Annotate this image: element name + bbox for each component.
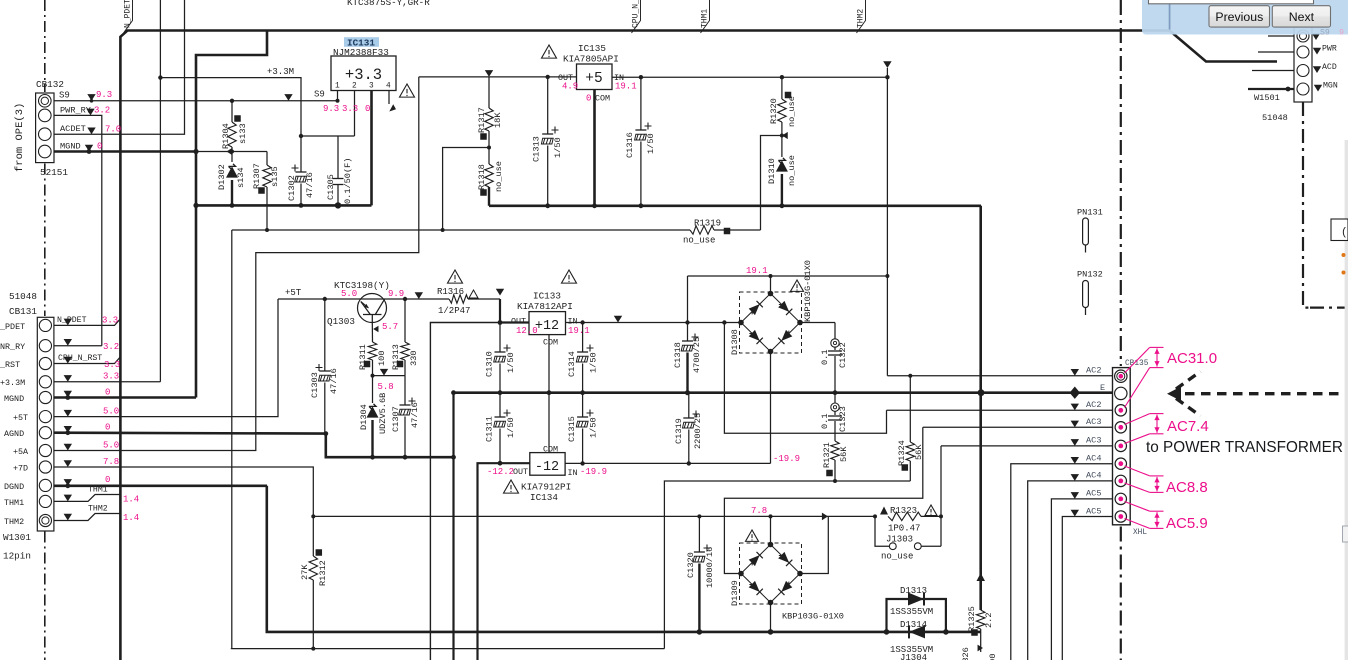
svg-text:ACD: ACD <box>1322 63 1337 72</box>
capacitor C1318 <box>692 334 699 341</box>
wire AC5a row <box>1051 499 1112 660</box>
svg-text:R1316: R1316 <box>437 287 464 297</box>
capacitor C1319 <box>693 411 700 418</box>
wire dash-dot boundary mid-right bottom <box>1120 527 1122 660</box>
node MGND-CB132 <box>193 149 198 154</box>
svg-text:AC3: AC3 <box>1086 417 1101 427</box>
svg-text:12.0: 12.0 <box>516 326 538 336</box>
svg-text:9: 9 <box>1339 29 1344 38</box>
svg-text:AC5: AC5 <box>1086 506 1101 516</box>
svg-text:R1307: R1307 <box>252 163 262 189</box>
wire +5 COM <box>593 90 596 206</box>
resistor R1304 <box>231 101 233 122</box>
wire dash-dot boundary left mid <box>44 164 46 317</box>
wire bus vertical to W1501 <box>1170 3 1278 62</box>
svg-text:AC31.0: AC31.0 <box>1167 350 1217 367</box>
resistor R1317 <box>488 77 490 108</box>
wire +12 OUT <box>500 299 529 323</box>
node C1318 top <box>685 320 689 324</box>
node flag N_PDET <box>124 0 133 33</box>
node +3.3M tap <box>158 75 162 79</box>
wire dash-dot boundary mid-right top <box>1120 0 1122 366</box>
wire +5 IN <box>612 76 887 78</box>
wire top bus <box>120 31 1169 660</box>
svg-text:S9: S9 <box>314 90 325 100</box>
node row markers <box>1071 369 1079 376</box>
resistor R1312 <box>312 516 314 556</box>
wire AC3b row <box>941 445 1113 447</box>
svg-text:no_use: no_use <box>494 161 504 192</box>
svg-text:4: 4 <box>386 83 391 91</box>
right edge small box <box>1331 219 1348 241</box>
svg-text:no_use: no_use <box>787 155 797 186</box>
wire +12 COM <box>548 335 550 393</box>
wire CPU_N_RST row <box>54 357 120 364</box>
svg-text:+5T: +5T <box>285 288 302 298</box>
svg-text:0: 0 <box>105 475 110 485</box>
svg-text:CPU_N_: CPU_N_ <box>632 0 641 28</box>
svg-text:100: 100 <box>377 351 387 366</box>
diode D1310 <box>781 136 783 158</box>
wire +5A row <box>54 77 419 451</box>
svg-text:1P0.47: 1P0.47 <box>888 524 920 534</box>
svg-text:D1304: D1304 <box>359 404 369 430</box>
node MGND rail <box>193 203 198 208</box>
svg-text:CB131: CB131 <box>9 306 37 317</box>
warning R1316 area <box>448 270 463 283</box>
svg-text:R1317: R1317 <box>477 107 487 133</box>
node D1302 gnd <box>230 203 235 208</box>
wire D1309 bottom <box>770 603 772 632</box>
node flag THM1 <box>701 0 710 33</box>
svg-text:2: 2 <box>352 83 357 91</box>
wire main E rail <box>454 391 1113 394</box>
resistor R1307 <box>266 152 268 166</box>
svg-text:no_use: no_use <box>787 96 797 127</box>
svg-text:R1325: R1325 <box>967 606 977 632</box>
svg-text:NR_RY: NR_RY <box>0 342 25 352</box>
svg-text:J1303: J1303 <box>886 535 913 545</box>
svg-text:_RST: _RST <box>0 360 20 370</box>
wire +3.3M row <box>54 381 160 383</box>
svg-text:0.1/50(F): 0.1/50(F) <box>343 158 353 204</box>
svg-text:AC2: AC2 <box>1086 400 1101 410</box>
node AGND-down <box>451 455 456 460</box>
right edge scrollbar strip <box>1345 140 1348 660</box>
node C1313 top <box>546 75 550 79</box>
wire -12 COM <box>548 393 550 453</box>
wire AC3a row <box>923 426 1113 428</box>
warning D1309 <box>746 530 759 541</box>
svg-text:3.3: 3.3 <box>342 104 358 114</box>
wire R1319 right link <box>761 136 782 231</box>
capacitor C1305 <box>337 136 339 179</box>
node C1319 bottom <box>687 461 691 465</box>
svg-text:AC8.8: AC8.8 <box>1166 479 1208 496</box>
svg-text:R1326: R1326 <box>961 647 971 660</box>
svg-text:KIA7805API: KIA7805API <box>563 54 619 65</box>
svg-text:COM: COM <box>543 338 558 348</box>
svg-text:51048: 51048 <box>9 291 37 302</box>
svg-text:0: 0 <box>105 423 110 433</box>
node C1302 top <box>299 134 303 138</box>
resistor R1313 <box>404 299 406 342</box>
wire MGND bus jog <box>196 32 267 398</box>
svg-text:IC135: IC135 <box>578 43 606 54</box>
wire PWR row <box>54 345 102 347</box>
wire AGND row <box>54 431 326 434</box>
resistor R1321 <box>831 441 839 460</box>
svg-text:IC134: IC134 <box>530 492 558 503</box>
capacitor C1313 <box>552 127 559 134</box>
svg-text:4700/25: 4700/25 <box>692 337 702 373</box>
node AC3b-R1323 <box>939 514 943 518</box>
svg-text:s135: s135 <box>270 166 280 187</box>
label AC8.8 dimension <box>1125 466 1164 492</box>
svg-text:(: ( <box>1341 227 1348 239</box>
svg-text:+5: +5 <box>585 71 602 87</box>
node COM rail <box>547 390 552 395</box>
label AC7.4 dimension <box>1125 414 1164 444</box>
diode network D1313 <box>887 599 946 632</box>
svg-text:PWR: PWR <box>1322 45 1337 54</box>
wire +5T row <box>54 299 278 417</box>
wire DGND bottom rail <box>267 486 981 632</box>
transistor Q1303 <box>358 294 387 323</box>
svg-text:0: 0 <box>365 104 370 114</box>
svg-text:XHL: XHL <box>1133 529 1147 537</box>
svg-text:no_use: no_use <box>881 552 913 562</box>
wire +3.3M net <box>159 0 161 382</box>
svg-text:C1302: C1302 <box>287 175 297 201</box>
svg-text:S9: S9 <box>1320 29 1330 38</box>
capacitor C1310 <box>504 345 511 352</box>
svg-text:19.1: 19.1 <box>615 82 637 92</box>
label AC5.9 dimension <box>1125 502 1164 529</box>
svg-text:0: 0 <box>105 387 110 397</box>
connector CB131 <box>37 317 54 531</box>
node R1319 line tap <box>441 228 445 232</box>
svg-text:5.0: 5.0 <box>103 440 119 450</box>
svg-text:C1322: C1322 <box>838 342 848 368</box>
svg-text:19.1: 19.1 <box>746 266 768 276</box>
svg-text:2.2: 2.2 <box>984 613 994 628</box>
node C1316 gnd <box>639 203 644 208</box>
wire CPU_RST bus drop <box>231 230 233 649</box>
node rail left end <box>451 390 456 395</box>
svg-text:1/2P47: 1/2P47 <box>438 306 470 316</box>
svg-text:18K: 18K <box>493 112 503 128</box>
node R1324 top <box>908 374 912 378</box>
wire D1308 bottom drop <box>770 352 772 464</box>
node C1303 top <box>323 297 327 301</box>
wire line A <box>664 481 910 649</box>
wire +5 ground rail <box>489 205 981 208</box>
svg-text:3.3: 3.3 <box>103 372 119 382</box>
svg-text:N_PDET: N_PDET <box>124 0 133 28</box>
resistor R1316 <box>415 292 423 299</box>
node D1310 gnd <box>780 203 785 208</box>
svg-text:R1318: R1318 <box>477 164 487 190</box>
svg-text:+3.3: +3.3 <box>345 66 382 84</box>
label AC31.0 dimension <box>1125 347 1164 407</box>
node R1321 line A <box>833 479 837 483</box>
svg-text:PN131: PN131 <box>1077 208 1103 218</box>
wire THM1 row <box>54 495 120 502</box>
svg-text:3.2: 3.2 <box>103 342 119 352</box>
svg-text:R1319: R1319 <box>694 219 721 229</box>
svg-text:KBP103G-01X0: KBP103G-01X0 <box>803 260 813 322</box>
svg-text:R1311: R1311 <box>358 344 368 370</box>
svg-text:DGND: DGND <box>4 482 24 492</box>
svg-text:AC5: AC5 <box>1086 489 1101 499</box>
wire -12 OUT <box>478 463 530 660</box>
node D1304 gnd <box>370 455 375 460</box>
wire +5T line <box>278 298 449 300</box>
node +7D corner <box>311 514 315 518</box>
svg-text:7.0: 7.0 <box>105 125 121 135</box>
svg-text:C1305: C1305 <box>326 174 336 200</box>
svg-text:S9: S9 <box>59 91 70 101</box>
wire -12 IN <box>565 462 770 464</box>
svg-text:C1323: C1323 <box>838 406 848 432</box>
wire PWR_RY <box>54 115 102 345</box>
wire D1309 left riser <box>724 427 922 573</box>
svg-text:THM2: THM2 <box>857 9 866 28</box>
svg-text:1/50: 1/50 <box>589 417 599 438</box>
capacitor C1316 <box>645 123 652 130</box>
svg-text:C1318: C1318 <box>673 342 683 368</box>
svg-text:52151: 52151 <box>40 167 68 178</box>
node C1310 rail <box>498 390 503 395</box>
node 19.1 branch <box>885 75 889 79</box>
wire AC3b net vertical <box>940 446 942 546</box>
svg-text:D1309: D1309 <box>730 580 740 606</box>
svg-text:MGND: MGND <box>60 141 81 151</box>
wire pin2 link <box>301 135 355 137</box>
wire R1311-R1313 join <box>373 375 406 377</box>
svg-text:1: 1 <box>335 83 340 91</box>
svg-text:THM1: THM1 <box>88 486 108 495</box>
svg-text:330: 330 <box>409 351 419 366</box>
svg-text:N_PDET: N_PDET <box>57 316 87 325</box>
svg-text:D1308: D1308 <box>730 329 740 355</box>
bridge D1308 <box>740 292 802 353</box>
svg-text:+12: +12 <box>535 319 559 334</box>
node C1302 gnd <box>299 203 304 208</box>
svg-text:MGND: MGND <box>4 394 24 404</box>
node COM gnd <box>592 203 597 208</box>
svg-text:_PDET: _PDET <box>0 322 25 332</box>
svg-text:5.0: 5.0 <box>103 406 119 416</box>
node S9-R1304 <box>230 99 234 103</box>
svg-text:s134: s134 <box>236 167 246 188</box>
svg-text:AGND: AGND <box>4 429 24 439</box>
svg-text:-19.9: -19.9 <box>773 454 800 464</box>
warning IC135 <box>542 45 557 58</box>
resistor R1319 <box>690 226 714 234</box>
warning IC131 <box>400 84 415 97</box>
node E big junction <box>978 389 985 396</box>
wire IC131 pin4 <box>388 91 390 105</box>
svg-text:+7D: +7D <box>13 464 28 474</box>
svg-text:OUT: OUT <box>513 467 528 477</box>
node flag THM2 <box>857 0 866 33</box>
svg-text:C1314: C1314 <box>567 351 577 377</box>
wire 7.8 to D1309 top <box>770 516 772 544</box>
wire THM2 row <box>54 514 120 521</box>
resistor R1324 <box>909 376 911 442</box>
svg-text:27K: 27K <box>300 564 310 580</box>
wire dash-dot boundary left top <box>44 0 46 92</box>
svg-text:1/50: 1/50 <box>646 133 656 154</box>
node C1316 top <box>639 75 643 79</box>
warning IC134 <box>504 480 519 493</box>
svg-text:R1312: R1312 <box>318 560 328 586</box>
svg-text:2200/25: 2200/25 <box>693 413 703 449</box>
svg-text:56K: 56K <box>839 446 849 462</box>
svg-text:5.8: 5.8 <box>378 382 394 392</box>
wire +12 OUT drop <box>430 323 500 660</box>
svg-text:9.3: 9.3 <box>323 104 339 114</box>
svg-text:0.1: 0.1 <box>820 350 830 365</box>
svg-text:C1320: C1320 <box>686 552 696 578</box>
svg-text:1SS355VM: 1SS355VM <box>890 607 933 617</box>
wire D1308 left AC2 link <box>724 323 886 434</box>
svg-text:KIA7912PI: KIA7912PI <box>521 482 571 493</box>
warning IC133 <box>562 270 577 283</box>
node R1317-R1318 <box>487 146 491 150</box>
node C1307 gnd <box>403 455 408 460</box>
svg-text:AC7.4: AC7.4 <box>1167 418 1209 435</box>
wire R1318 junction left <box>443 148 489 231</box>
node R1312 bottom <box>311 647 315 651</box>
wire bottom link line <box>231 648 232 650</box>
button Previous <box>1209 6 1270 27</box>
wire E net vertical <box>980 206 982 393</box>
svg-text:AC4: AC4 <box>1086 471 1101 481</box>
capacitor C1314 <box>587 345 594 352</box>
svg-text:KBP103G-01X0: KBP103G-01X0 <box>782 612 844 622</box>
svg-text:5.7: 5.7 <box>382 322 398 332</box>
node 7.8 tee <box>769 514 773 518</box>
wire D1309 right riser <box>800 516 828 573</box>
svg-text:no_use: no_use <box>683 236 715 246</box>
svg-text:Previous: Previous <box>1215 10 1263 24</box>
svg-text:R1320: R1320 <box>769 98 779 124</box>
warning D1308 <box>791 280 804 291</box>
svg-text:51048: 51048 <box>1262 113 1288 123</box>
wire AC2b row <box>887 409 1113 411</box>
svg-text:R1324: R1324 <box>897 440 907 466</box>
svg-text:1/50: 1/50 <box>553 137 563 158</box>
node D1309 gnd <box>768 629 774 635</box>
svg-text:4.9: 4.9 <box>562 82 578 92</box>
svg-text:AC5.9: AC5.9 <box>1166 515 1208 532</box>
wire AC2a row <box>887 375 1112 377</box>
wire ACDET <box>54 0 185 134</box>
svg-text:C1310: C1310 <box>485 351 495 377</box>
capacitor C1315 <box>587 410 594 417</box>
wire AC5b row <box>1062 517 1112 660</box>
svg-text:47/16: 47/16 <box>410 402 420 428</box>
svg-text:1/50: 1/50 <box>589 352 599 373</box>
svg-text:s133: s133 <box>238 123 248 144</box>
wire AGND down leg <box>452 393 454 660</box>
capacitor C1320 <box>704 545 711 552</box>
node R1325 rail <box>978 390 983 395</box>
svg-text:47/16: 47/16 <box>329 368 339 394</box>
svg-text:KIA7812API: KIA7812API <box>517 301 573 312</box>
node C1318 rail <box>685 390 690 395</box>
connector W1501 <box>1258 51 1294 53</box>
node C1311 out <box>498 461 503 466</box>
wire MGND to D1302 <box>196 151 232 153</box>
svg-text:+3.3M: +3.3M <box>0 378 25 388</box>
svg-text:AC2: AC2 <box>1086 366 1101 376</box>
svg-text:10000/16: 10000/16 <box>705 547 715 588</box>
svg-text:THM1: THM1 <box>4 498 24 508</box>
node C1314 rail <box>580 390 585 395</box>
svg-text:C1307: C1307 <box>391 406 401 432</box>
node C1305 gnd <box>335 202 341 208</box>
svg-text:THM2: THM2 <box>4 517 24 527</box>
svg-text:COM: COM <box>595 94 610 104</box>
svg-text:C1303: C1303 <box>310 372 320 398</box>
connector CB132 <box>36 93 54 163</box>
svg-text:R1323: R1323 <box>890 506 917 516</box>
node AGND corner <box>323 431 328 436</box>
node D1308 19.1 stub <box>769 274 773 278</box>
wire IC131 pin2 <box>354 91 356 137</box>
node 19.1 corner <box>885 274 889 278</box>
svg-text:7.8: 7.8 <box>103 457 119 467</box>
capacitor C1311 <box>504 410 511 417</box>
svg-text:C1316: C1316 <box>625 132 635 158</box>
ic IC131 <box>344 37 379 47</box>
svg-text:R1304: R1304 <box>221 123 231 149</box>
svg-text:1.4: 1.4 <box>123 495 139 505</box>
bridge D1309 <box>740 543 802 604</box>
wire 7.8 line <box>313 515 875 517</box>
wire +12 IN <box>566 322 742 324</box>
svg-text:0: 0 <box>97 142 102 152</box>
node C1320 bottom <box>697 629 703 635</box>
warning R1323 <box>925 505 937 516</box>
svg-text:1/50: 1/50 <box>506 352 516 373</box>
svg-text:19.1: 19.1 <box>568 326 590 336</box>
svg-text:PWR_RY: PWR_RY <box>60 105 91 115</box>
svg-text:IC133: IC133 <box>533 291 561 302</box>
wire R1319 line <box>232 229 690 231</box>
svg-text:-19.9: -19.9 <box>580 467 607 477</box>
wire +7D row <box>54 467 313 516</box>
svg-text:IN: IN <box>568 468 578 478</box>
wire D1308 top to 19.1 <box>688 275 888 277</box>
svg-text:+5A: +5A <box>13 447 29 457</box>
svg-text:0: 0 <box>586 94 591 104</box>
resistor R1318 <box>488 148 490 165</box>
svg-text:C1311: C1311 <box>485 416 495 442</box>
svg-text:PN132: PN132 <box>1077 270 1103 280</box>
svg-text:C1319: C1319 <box>674 418 684 444</box>
svg-text:W1501: W1501 <box>1254 93 1280 103</box>
diode D1302 <box>231 152 233 163</box>
svg-text:R1321: R1321 <box>822 442 832 468</box>
wire 19.1 drop <box>886 77 888 376</box>
resistor R1326 partial <box>980 632 982 652</box>
svg-text:ACDET: ACDET <box>60 124 86 134</box>
